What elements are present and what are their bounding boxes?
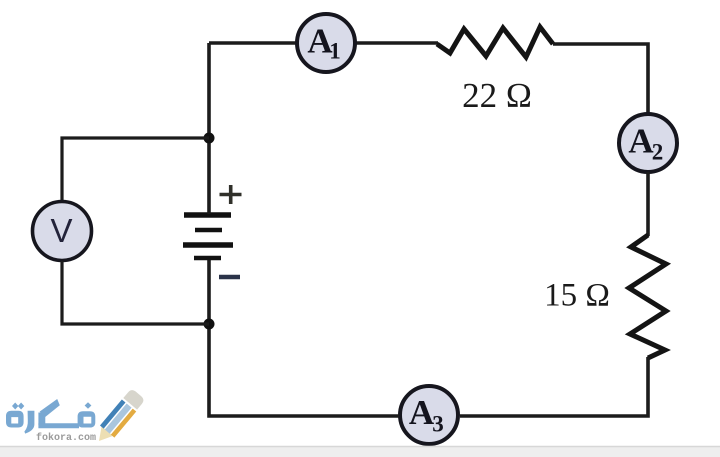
ammeter A2 — [619, 114, 677, 172]
svg-text:3: 3 — [432, 412, 444, 437]
wire left vertical (junction to top corner) — [207, 43, 211, 139]
wire top (A1 to resistor R1) — [356, 41, 438, 45]
resistor R2 15ohm zigzag — [629, 235, 666, 358]
battery short plate bottom — [194, 256, 221, 261]
node junction bottom — [204, 319, 215, 330]
voltmeter V — [33, 202, 92, 261]
svg-text:V: V — [50, 212, 72, 249]
wire right-bottom (resistor R2 to corner) — [460, 357, 648, 416]
svg-text:15 Ω: 15 Ω — [544, 278, 610, 314]
svg-text:1: 1 — [329, 39, 341, 64]
wire battery bottom lead — [207, 259, 211, 324]
wire right (A2 to resistor R2) — [646, 172, 650, 236]
svg-text:A: A — [628, 122, 654, 161]
node junction top — [204, 133, 215, 144]
battery long plate 3 — [183, 242, 233, 248]
ammeter A3 — [400, 386, 458, 444]
battery long plate top — [184, 212, 231, 218]
battery minus sign — [219, 275, 240, 280]
svg-text:A: A — [409, 393, 435, 432]
svg-text:2: 2 — [652, 140, 664, 165]
ammeter A1 — [297, 14, 355, 72]
battery B1 — [183, 215, 233, 258]
battery short plate 2 — [195, 228, 222, 233]
wire bottom-left (A3 to corner, up to battery) — [209, 326, 399, 416]
wire top-right (resistor R1 to corner) — [553, 44, 648, 113]
arabic word blue — [6, 399, 95, 434]
wire top-left horizontal (corner to A1) — [209, 41, 296, 45]
bottom gray bar — [0, 446, 720, 457]
wire voltmeter branch top — [62, 138, 209, 201]
svg-text:22 Ω: 22 Ω — [462, 76, 532, 115]
wire voltmeter branch bottom — [62, 261, 209, 324]
battery plus sign — [220, 185, 242, 204]
svg-text:fokora.com: fokora.com — [36, 432, 96, 444]
resistor R1 22ohm zigzag — [437, 27, 553, 57]
watermark logo fokora — [6, 388, 146, 447]
wire battery top lead — [207, 138, 211, 214]
pencil icon — [92, 388, 146, 447]
